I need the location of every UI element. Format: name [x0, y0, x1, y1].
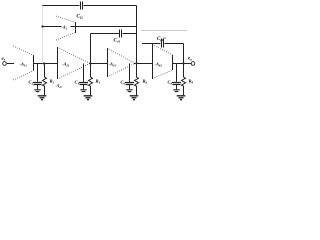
svg-text:C41: C41: [114, 39, 121, 44]
svg-text:eo: eo: [188, 57, 192, 62]
svg-text:Cf2: Cf2: [77, 15, 83, 20]
svg-text:e1: e1: [2, 57, 6, 62]
